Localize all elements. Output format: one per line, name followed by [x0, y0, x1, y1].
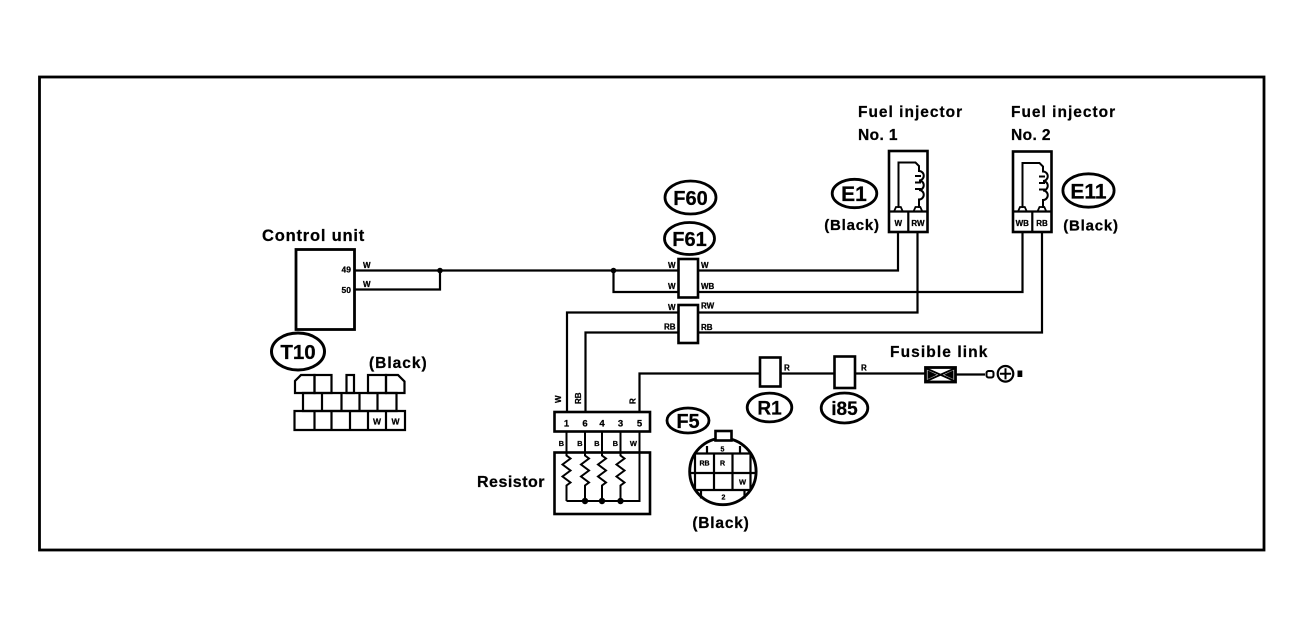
svg-text:RB: RB [1036, 219, 1048, 228]
svg-text:B: B [559, 439, 565, 448]
svg-text:B: B [613, 439, 619, 448]
T10 connector top row [295, 375, 315, 393]
resistor connector bar [555, 412, 651, 432]
resistor element 2 [581, 453, 589, 502]
connector E11 oval [1063, 174, 1114, 207]
F60/F61 connector block 2 [679, 305, 699, 343]
svg-text:No. 2: No. 2 [1011, 127, 1051, 144]
svg-text:W: W [363, 280, 371, 289]
label B [1018, 371, 1023, 378]
svg-text:F5: F5 [676, 411, 699, 433]
F60/F61 connector block 1 [679, 259, 699, 298]
svg-text:2: 2 [722, 495, 726, 502]
svg-text:T10: T10 [280, 341, 315, 364]
svg-text:(Black): (Black) [1063, 218, 1119, 235]
resistor element 3 [598, 453, 606, 502]
svg-text:No. 1: No. 1 [858, 127, 898, 144]
svg-text:WB: WB [1016, 219, 1030, 228]
svg-text:50: 50 [342, 285, 352, 295]
svg-text:RB: RB [664, 323, 676, 332]
junction dot [611, 268, 617, 274]
svg-text:W: W [668, 282, 676, 291]
svg-text:W: W [739, 478, 747, 487]
svg-text:Control unit: Control unit [262, 227, 365, 245]
connector R1 box [760, 358, 781, 387]
svg-text:W: W [701, 261, 709, 270]
svg-text:RB: RB [701, 323, 713, 332]
svg-text:R1: R1 [757, 399, 782, 420]
svg-text:RB: RB [574, 392, 583, 404]
resistor pin stubs [567, 432, 640, 453]
svg-text:1: 1 [564, 419, 570, 430]
svg-text:5: 5 [721, 447, 725, 454]
control unit box [296, 250, 355, 330]
svg-text:49: 49 [342, 265, 352, 275]
wire block1 top right to injector1 W [698, 232, 898, 271]
svg-text:W: W [895, 219, 903, 228]
connector T10 oval [272, 333, 325, 370]
svg-text:W: W [391, 417, 400, 427]
svg-text:R: R [629, 398, 638, 404]
fuel injector No.2 body [1013, 152, 1052, 233]
resistor element 1 [563, 453, 571, 502]
wire i85 to fusible link [855, 372, 926, 374]
svg-text:RB: RB [699, 461, 709, 468]
wire W from pin 50 [355, 271, 441, 290]
connector F61 oval [665, 223, 715, 255]
wire block1 bottom right to injector2 WB [698, 232, 1023, 292]
svg-text:(Black): (Black) [369, 355, 428, 372]
svg-text:W: W [668, 303, 676, 312]
svg-text:Fuel injector: Fuel injector [858, 104, 963, 121]
battery plus symbol [998, 366, 1014, 382]
svg-text:WB: WB [701, 282, 715, 291]
connector i85 oval [821, 393, 868, 423]
connector F60 oval [665, 181, 716, 214]
connector F5 oval [667, 408, 709, 433]
svg-text:W: W [373, 417, 382, 427]
wire fusible link to battery [956, 373, 986, 375]
connector i85 box [835, 357, 856, 389]
svg-text:E1: E1 [841, 183, 867, 206]
wire R1 to i85 [781, 372, 835, 374]
svg-text:F60: F60 [673, 188, 707, 210]
svg-text:i85: i85 [831, 399, 858, 420]
wire pin5 to R1 [640, 374, 761, 413]
svg-text:W: W [554, 395, 563, 403]
resistor element 4 [617, 453, 625, 502]
svg-text:W: W [668, 261, 676, 270]
svg-text:RW: RW [911, 219, 925, 228]
svg-text:Resistor: Resistor [477, 474, 545, 491]
wire block2 top left down to resistor pin 1 [567, 313, 679, 413]
resistor box [555, 453, 651, 515]
svg-text:Fuel injector: Fuel injector [1011, 104, 1116, 121]
svg-text:(Black): (Black) [824, 217, 880, 234]
svg-text:R: R [720, 461, 725, 468]
resistor common bus [567, 453, 640, 502]
svg-text:(Black): (Black) [692, 515, 749, 532]
border frame [40, 77, 1265, 550]
wire branch to F60 lower pin [614, 271, 680, 293]
svg-text:RW: RW [701, 302, 715, 311]
T10 connector bottom row [295, 411, 406, 430]
svg-text:E11: E11 [1070, 181, 1107, 204]
connector R1 oval [747, 393, 792, 422]
wire block2 bottom left down to resistor pin 6 [586, 333, 679, 413]
small connector square [987, 371, 994, 378]
junction dot [437, 268, 443, 274]
fusible link symbol [926, 368, 956, 383]
svg-text:W: W [630, 439, 638, 448]
svg-text:R: R [861, 364, 867, 373]
wire block2 top right to injector1 RW [698, 232, 918, 313]
svg-text:Fusible link: Fusible link [890, 344, 988, 361]
wire block2 bottom right to injector2 RB [698, 232, 1042, 333]
svg-text:6: 6 [582, 419, 587, 430]
connector E1 oval [832, 179, 877, 207]
T10 connector middle row [303, 393, 397, 411]
svg-text:B: B [577, 439, 583, 448]
svg-text:R: R [784, 364, 790, 373]
svg-text:4: 4 [599, 419, 605, 430]
svg-text:W: W [363, 261, 371, 270]
svg-text:5: 5 [637, 419, 643, 430]
wire W from pin 49 [355, 269, 680, 271]
svg-text:3: 3 [618, 419, 623, 430]
fuel injector No.1 body [889, 151, 928, 232]
svg-text:B: B [594, 439, 600, 448]
svg-text:F61: F61 [672, 229, 706, 251]
F5 round connector face [690, 431, 756, 505]
